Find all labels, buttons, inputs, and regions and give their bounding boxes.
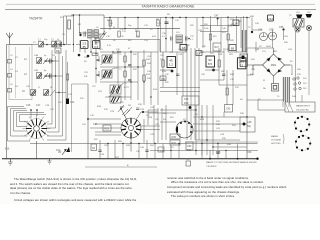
capacitor C45b — [216, 152, 219, 153]
svg-text:4.7k: 4.7k — [107, 45, 111, 47]
capacitor C56 — [279, 26, 285, 31]
wire aerial lead — [6, 45, 38, 159]
node osc dots — [112, 51, 120, 52]
capacitor C9 — [78, 54, 81, 57]
fuse F1 — [272, 84, 279, 92]
box HT smoothing C48 — [240, 54, 248, 61]
svg-text:MAINS: MAINS — [271, 135, 278, 138]
node mixer dots — [73, 32, 105, 52]
svg-text:200-250V AC: 200-250V AC — [296, 109, 309, 112]
transformer T1 oscillator coil — [88, 30, 99, 39]
node bus j1 — [209, 158, 211, 160]
label R4 — [55, 48, 61, 53]
voltage box V4 — [237, 58, 246, 69]
node S2 top — [120, 108, 122, 110]
transformer IFT3 — [110, 85, 121, 94]
node IF input dots — [95, 53, 96, 69]
capacitor C25 — [136, 108, 139, 109]
transformer T2 output winding — [242, 30, 246, 52]
wire det links — [160, 52, 247, 85]
coil L2 ferrite core — [51, 39, 57, 48]
wire S2 right links — [141, 126, 160, 130]
wire detector verticals — [163, 48, 233, 105]
capacitor C31 — [171, 70, 174, 73]
wire bottom drops — [100, 140, 238, 159]
resistor R15 vertical — [162, 60, 164, 67]
svg-text:C47: C47 — [214, 15, 219, 18]
ground chassis mid — [48, 159, 52, 164]
wire S2 down — [130, 139, 132, 152]
capacitor C17d — [186, 37, 188, 41]
svg-text:R17: R17 — [120, 106, 125, 109]
wire mains drops — [283, 75, 309, 107]
svg-text:C48: C48 — [247, 121, 252, 124]
label S2 — [91, 144, 97, 151]
svg-text:TA094TR RADIO-GRAMOPHONE: TA094TR RADIO-GRAMOPHONE — [142, 5, 196, 9]
wire IF verticals — [118, 30, 158, 105]
wire heater line — [247, 100, 285, 110]
wire AGC line — [30, 143, 258, 145]
wire top mixer extras — [64, 16, 105, 53]
box HT smoothing C49 — [240, 62, 248, 67]
svg-text:18: 18 — [182, 46, 186, 50]
bridge rectifier MR1 — [263, 54, 285, 76]
wire osc to IF — [96, 38, 160, 52]
box C42 — [225, 105, 233, 113]
transformer IFT2 — [102, 70, 112, 78]
svg-text:50μ: 50μ — [247, 125, 252, 128]
wire V1 anode — [73, 15, 79, 44]
wire bank inner verticals — [16, 47, 30, 98]
wire bridge top — [247, 48, 290, 84]
trimmer arrows IFTs — [101, 53, 124, 97]
wire output verticals — [211, 16, 244, 52]
resistor R8 — [157, 20, 159, 26]
svg-text:S2B: S2B — [126, 145, 130, 147]
node bus end — [256, 158, 258, 160]
wire above bus — [185, 141, 258, 143]
svg-text:R24: R24 — [187, 149, 192, 152]
svg-text:C34: C34 — [161, 78, 166, 81]
node aerial junction 2 — [59, 44, 61, 46]
svg-text:C3B: C3B — [34, 70, 39, 72]
rotary switch S3 wafer — [176, 121, 193, 139]
node HT junction 2 — [79, 14, 81, 16]
capacitor C44 blob — [251, 31, 253, 33]
svg-text:VR: VR — [58, 151, 62, 154]
transformer T3 speaker — [293, 19, 304, 28]
wire coilbank drops — [47, 120, 66, 140]
node IF dots — [117, 51, 151, 97]
voltage box V3 anode — [268, 15, 274, 21]
wire S2 diagonal — [121, 109, 128, 122]
capacitor C3 — [79, 34, 81, 36]
pickup box — [186, 159, 191, 166]
capacitor C26 — [98, 150, 101, 151]
svg-text:SETTING: SETTING — [271, 143, 281, 145]
node HT junction 1 — [73, 14, 75, 16]
bottom paragraph left — [10, 178, 160, 204]
svg-text:C14: C14 — [70, 101, 75, 104]
wire PSU feed vertical — [240, 18, 242, 49]
coil L5 — [22, 90, 36, 96]
capacitor C30 — [145, 150, 148, 151]
wire chassis bus — [2, 158, 258, 160]
svg-text:85: 85 — [83, 45, 87, 49]
svg-text:S1E: S1E — [163, 113, 167, 115]
svg-text:TA294TR: TA294TR — [29, 17, 43, 21]
svg-text:IFT3: IFT3 — [124, 87, 129, 89]
capacitor C37 — [222, 74, 225, 75]
capacitor C33 — [212, 69, 215, 72]
resistor R1 — [68, 20, 71, 29]
node S1 feed b — [36, 109, 38, 111]
wire S1 routing left — [8, 107, 31, 142]
box C48 can — [240, 117, 255, 132]
resistor R25 — [227, 34, 229, 40]
box R19 — [103, 125, 111, 131]
voltage box det — [180, 45, 187, 51]
transformer T4 mains secondary — [287, 77, 290, 102]
wire S2 left links — [90, 124, 121, 132]
scattered small labels top — [15, 16, 301, 101]
svg-text:2M: 2M — [128, 105, 131, 107]
wire mid horizontals — [88, 110, 158, 143]
svg-text:22k: 22k — [136, 36, 139, 38]
rotary switch S2 wafer — [121, 118, 141, 139]
resistor R11 — [137, 31, 139, 37]
wire PSU left — [247, 48, 253, 159]
potentiometer R17 — [120, 106, 130, 116]
resistor R22 vertical — [218, 60, 220, 67]
svg-text:'CROSSED': 'CROSSED' — [206, 166, 217, 168]
capacitor C41 — [189, 106, 192, 109]
wire S3 horizontals — [193, 124, 247, 131]
resistor R23 vertical — [226, 88, 228, 95]
coil L3 — [24, 58, 55, 65]
box osc trimmer — [95, 38, 99, 42]
node S3 dots — [195, 109, 247, 147]
wire band row ticks — [44, 61, 66, 93]
label C34 — [160, 76, 166, 81]
resistor R5 — [92, 53, 98, 56]
wire IF drops from HT — [110, 18, 247, 53]
capacitor C21 — [128, 65, 131, 66]
node volume — [87, 118, 89, 120]
box mains panel — [285, 102, 315, 112]
box S3 contacts a — [170, 134, 180, 139]
box R27 — [213, 43, 221, 51]
box C52 — [186, 142, 193, 150]
svg-text:K10: K10 — [5, 148, 10, 151]
capacitor C47 — [214, 15, 219, 20]
capacitor C35 — [176, 74, 179, 75]
switch contact box C4 — [8, 74, 12, 78]
svg-text:C3C: C3C — [26, 86, 31, 88]
svg-text:C3A: C3A — [34, 54, 39, 57]
svg-text:PU: PU — [186, 159, 189, 161]
capacitor C23 — [97, 75, 100, 76]
box earth component — [158, 147, 164, 152]
wire earth return — [150, 150, 258, 152]
wire IF input column — [96, 54, 99, 84]
valve base V1 pinout — [294, 116, 310, 133]
wire HT rail 2 — [104, 17, 250, 19]
wire S1 feeds top — [31, 109, 37, 118]
voltage selector taps — [293, 77, 301, 90]
voltage box V3 grid — [206, 56, 215, 67]
speaker LS1 — [295, 15, 303, 33]
node det dots — [165, 17, 190, 40]
coil L4 — [24, 73, 55, 80]
valve V3A — [258, 29, 268, 41]
transformer T4 mains primary — [283, 77, 286, 102]
resistor R6 — [109, 20, 111, 26]
bottom paragraph right — [167, 177, 313, 201]
node aerial junction 3 — [63, 44, 65, 46]
box voltage small R21 — [196, 51, 202, 56]
svg-text:12: 12 — [240, 64, 244, 68]
trimmer C7A arrow — [100, 31, 107, 39]
capacitor C5b — [60, 42, 62, 47]
svg-text:S1J: S1J — [170, 147, 173, 149]
svg-text:R19: R19 — [105, 128, 110, 131]
wire AF verticals — [187, 48, 199, 140]
voltage box V1 grid — [81, 41, 89, 49]
resistor R2 — [66, 74, 68, 80]
wire output links — [200, 26, 236, 32]
resistor R10 vertical — [124, 56, 126, 62]
svg-text:VOLTAGE: VOLTAGE — [271, 139, 282, 142]
top rule 1 — [6, 3, 315, 5]
wire S1 routing top legs — [8, 107, 47, 115]
label R3 — [55, 41, 61, 46]
wire coil bank verticals — [52, 50, 66, 120]
scattered small labels mid — [45, 105, 232, 159]
transformer IFT1 — [102, 55, 112, 63]
resistor R26 — [209, 34, 211, 40]
resistor R14 vertical — [143, 75, 145, 81]
svg-text:R36: R36 — [172, 136, 177, 139]
node aerial junction — [46, 44, 48, 46]
node S2 down — [130, 142, 132, 144]
capacitor C10 — [87, 55, 90, 58]
node bottom dots — [107, 143, 218, 144]
wire mid verticals S3 area — [148, 105, 176, 143]
svg-text:C17: C17 — [36, 104, 41, 107]
node row dots — [45, 60, 60, 93]
top rule 2 — [5, 9, 316, 11]
voltage box V1 anode — [93, 41, 101, 49]
wire speaker leads — [273, 30, 310, 75]
coil L6 — [44, 90, 56, 97]
node S1 feed a — [30, 109, 32, 111]
svg-text:WAFER 'S' POSITIONED BETWEEN W: WAFER 'S' POSITIONED BETWEEN WAFERS SHOW… — [206, 161, 257, 164]
wire S2 up right — [136, 112, 158, 120]
coil bank frame — [9, 45, 32, 100]
svg-text:C36: C36 — [184, 98, 189, 101]
transformer IFT4 — [110, 96, 121, 103]
wire S3 links — [160, 110, 247, 147]
capacitor C16d — [171, 37, 173, 41]
svg-text:1.2: 1.2 — [169, 63, 174, 67]
svg-text:C56: C56 — [279, 26, 284, 29]
svg-text:0.5: 0.5 — [94, 45, 98, 49]
voltage box V2 anode — [167, 57, 176, 68]
scattered small labels values — [10, 12, 311, 153]
capacitor C27 blob — [142, 111, 144, 113]
svg-text:1k: 1k — [113, 27, 115, 29]
capacitor C7 pair — [84, 32, 86, 37]
svg-text:C24: C24 — [93, 123, 98, 126]
svg-text:C52: C52 — [187, 145, 192, 148]
wire HT rail — [71, 15, 104, 18]
wire output extra — [211, 18, 263, 53]
svg-text:C42: C42 — [226, 108, 231, 111]
capacitor C5 row1 — [50, 59, 52, 64]
capacitor C22 — [128, 80, 131, 81]
svg-text:8.5: 8.5 — [208, 62, 213, 66]
svg-text:MR1: MR1 — [271, 63, 277, 67]
svg-text:C50: C50 — [247, 151, 252, 154]
switch contact box C2 — [8, 60, 12, 64]
resistor R12 vertical — [124, 71, 126, 77]
wire gram section border — [72, 84, 89, 152]
box tone network — [182, 96, 199, 105]
wire AF links — [160, 87, 200, 91]
switch contact box C6 — [8, 89, 12, 93]
svg-text:212: 212 — [268, 17, 273, 21]
node bus j2 — [237, 158, 239, 160]
wire PSU links — [247, 48, 292, 75]
capacitor C15 — [165, 22, 169, 23]
label mains voltage setting — [271, 134, 284, 145]
potentiometer R18 diagonal — [118, 105, 132, 114]
volume arrow — [58, 149, 67, 155]
svg-text:MAINS INPUT: MAINS INPUT — [296, 105, 311, 108]
wire IF links — [100, 52, 158, 97]
node HT dots — [109, 17, 247, 30]
wire aerial to mixer — [44, 44, 72, 46]
svg-text:C16: C16 — [26, 104, 31, 107]
capacitor C6 row2 — [50, 74, 52, 79]
valve V3B — [269, 29, 277, 41]
wire S3 verticals — [196, 105, 213, 155]
box voltage small C40 — [229, 45, 236, 51]
box S3 contacts b — [170, 140, 180, 145]
voltage box output grid — [233, 20, 239, 26]
svg-text:V3B: V3B — [269, 29, 274, 32]
dimension line a — [85, 166, 157, 168]
ground chassis left — [8, 159, 13, 165]
rotary switch S1 wafer — [23, 115, 51, 159]
antenna A1 — [6, 33, 13, 45]
transformer det coil — [176, 35, 183, 43]
node earth return dots — [170, 150, 226, 151]
wire volume feed — [87, 84, 89, 159]
resistor R9 — [118, 31, 120, 37]
speaker LS2 — [306, 14, 313, 31]
valve base V2 pinout — [295, 135, 311, 152]
svg-text:R28: R28 — [184, 102, 189, 105]
capacitor C14 electrolytic — [66, 99, 75, 105]
wire screen rail — [100, 28, 180, 30]
coil L1 ferrite core — [38, 39, 44, 48]
diode MR2 — [66, 147, 70, 152]
resistor R13 vertical — [143, 60, 145, 66]
wire S1 right links — [47, 124, 63, 136]
wire osc cathode — [67, 62, 69, 98]
svg-text:470k: 470k — [204, 28, 208, 30]
note wafer S text — [206, 161, 257, 168]
capacitor C20 — [97, 60, 100, 61]
